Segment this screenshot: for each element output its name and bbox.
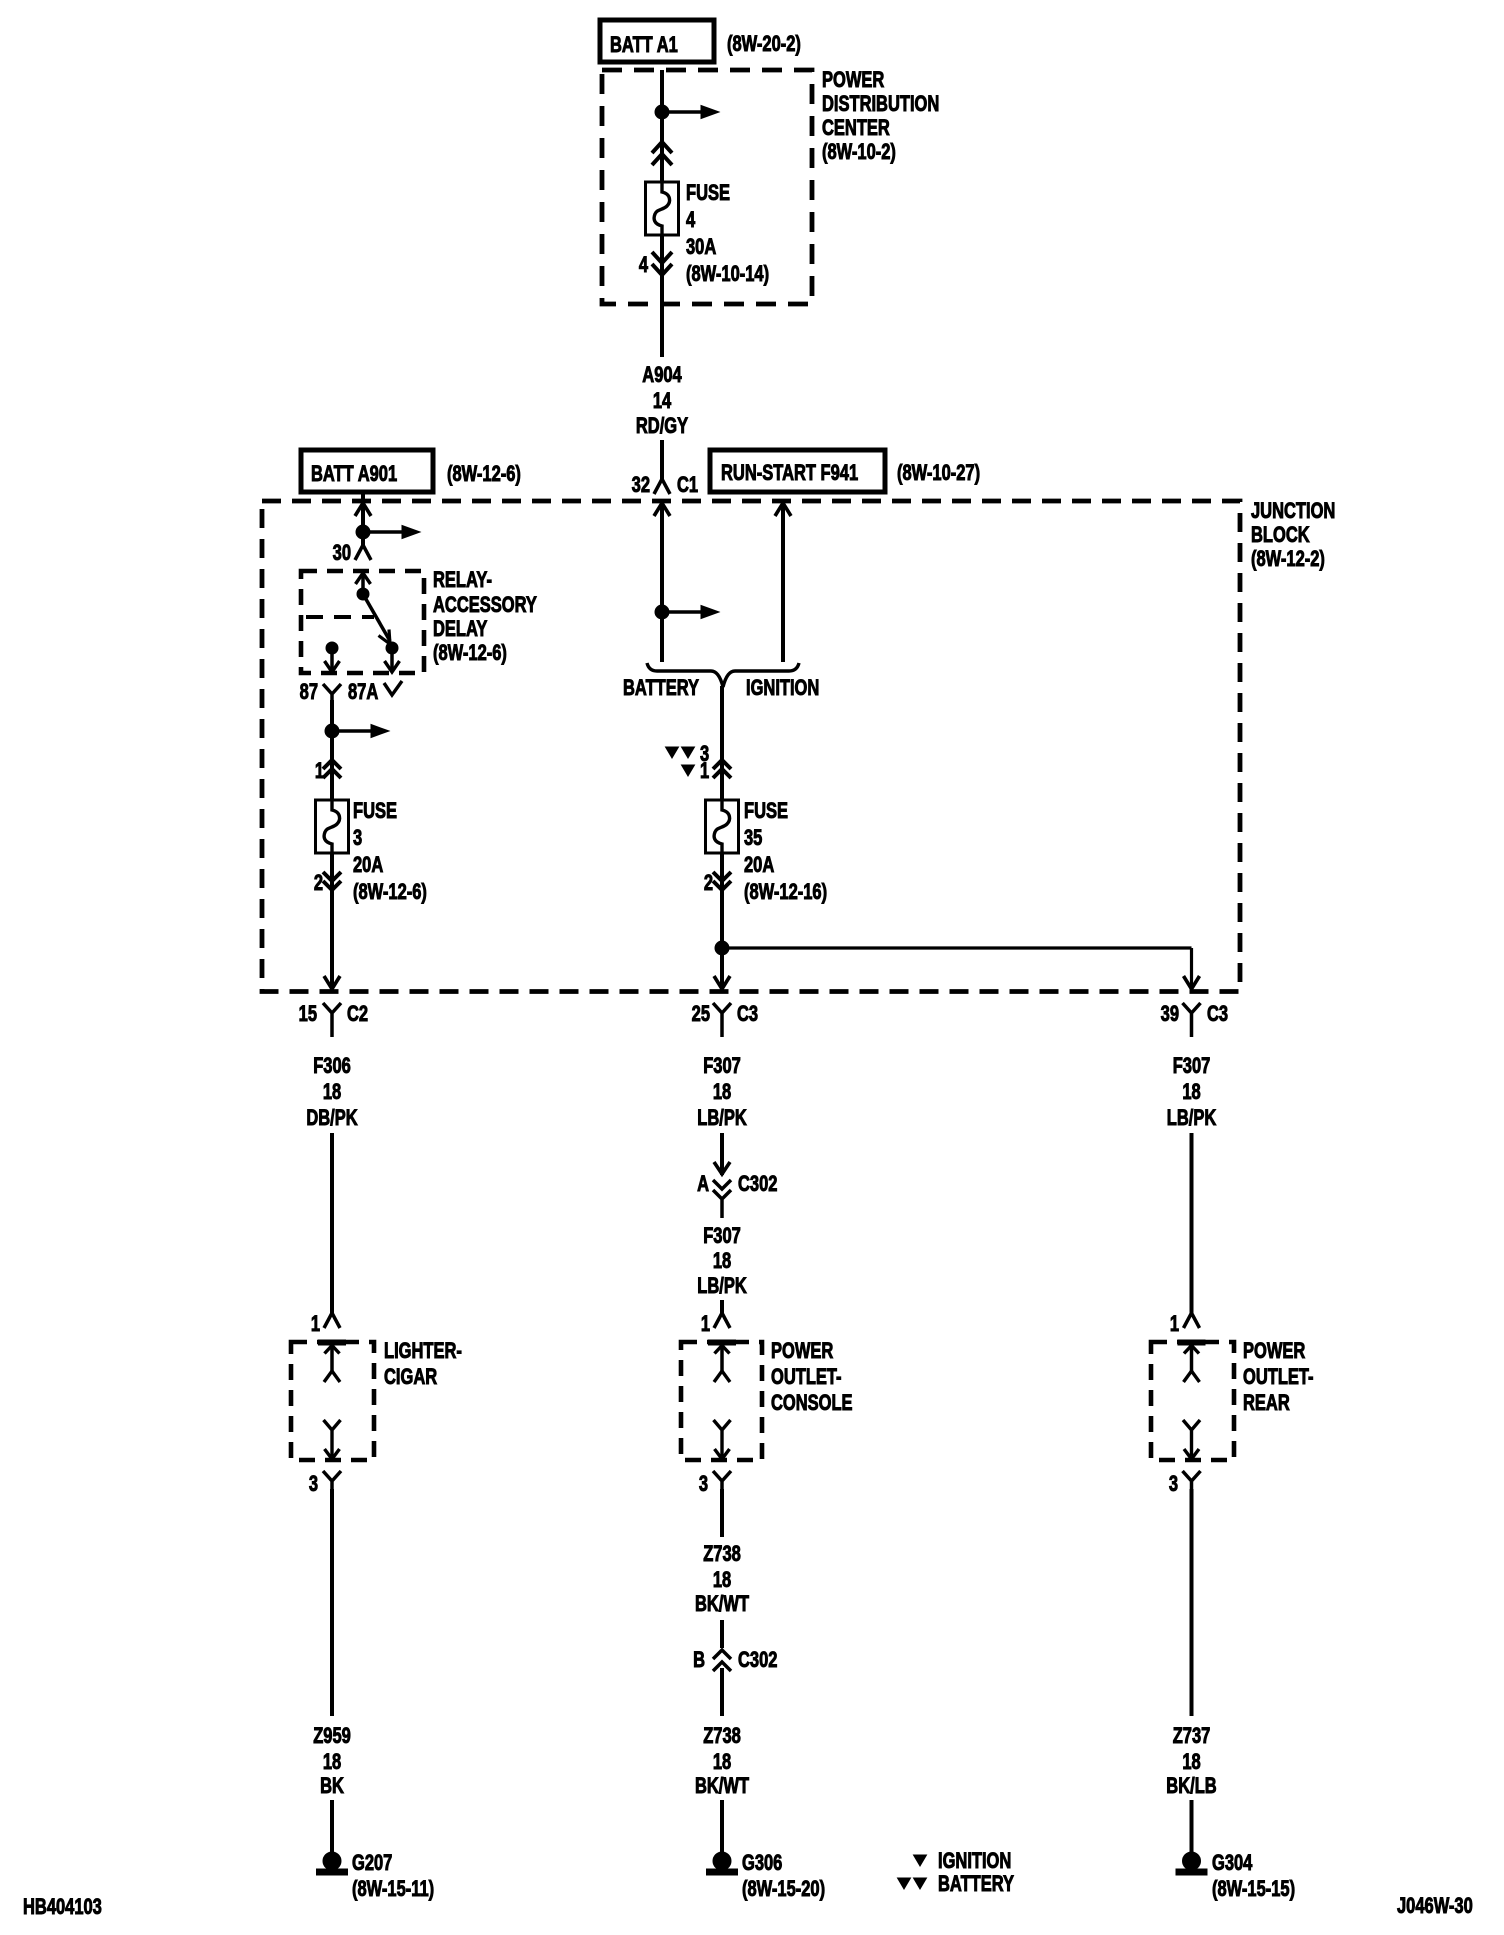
svg-text:39: 39 [1161, 1002, 1180, 1027]
svg-text:18: 18 [713, 1750, 732, 1775]
svg-text:(8W-10-2): (8W-10-2) [822, 140, 896, 165]
junction block label [1251, 499, 1335, 572]
svg-text:Z737: Z737 [1173, 1724, 1211, 1749]
relay-accessory delay dashed box [301, 571, 424, 673]
legend ignition marker [914, 1849, 1012, 1874]
node with feed arrow in PDC [655, 105, 719, 119]
svg-text:F306: F306 [313, 1054, 351, 1079]
svg-text:18: 18 [323, 1750, 342, 1775]
ground label G306 [742, 1851, 825, 1902]
wire to ground G304 [1190, 1800, 1194, 1852]
ground G306 [707, 1852, 738, 1875]
wire to ground G207 [330, 1800, 334, 1852]
relay coil dashed line [306, 615, 374, 619]
connector C3 pin 25 [692, 1002, 759, 1037]
svg-text:POWER: POWER [1243, 1339, 1305, 1364]
svg-text:1: 1 [311, 1312, 320, 1337]
svg-text:30A: 30A [686, 235, 716, 260]
fuse 3 pin 1 [315, 759, 341, 784]
connector C302 pin A [697, 1172, 778, 1218]
svg-text:(8W-12-6): (8W-12-6) [447, 462, 521, 487]
relay contact 87 [325, 642, 340, 672]
svg-text:J046W-30: J046W-30 [1397, 1894, 1473, 1919]
battery marker triangles 3 [666, 742, 710, 767]
svg-text:LB/PK: LB/PK [697, 1274, 746, 1299]
svg-text:4: 4 [686, 208, 695, 233]
svg-text:BK/LB: BK/LB [1166, 1774, 1216, 1799]
svg-text:30: 30 [333, 541, 352, 566]
lighter pin 1 connector [311, 1312, 340, 1337]
svg-text:87A: 87A [348, 680, 378, 705]
svg-text:A: A [697, 1172, 709, 1197]
fuse 35 pin 1 chevrons [713, 760, 731, 778]
svg-text:18: 18 [1182, 1750, 1201, 1775]
double chevron up to fuse 4 [652, 142, 672, 165]
svg-text:Z738: Z738 [703, 1542, 741, 1567]
wire label A904 14 RD/GY [636, 363, 688, 439]
cigar lighter component [291, 1339, 462, 1460]
svg-text:2: 2 [314, 871, 323, 896]
wire 87 to fuse 3 [330, 700, 334, 800]
svg-text:A904: A904 [642, 363, 682, 388]
svg-text:DB/PK: DB/PK [306, 1106, 357, 1131]
wire fuse 35 to connector C3 [714, 852, 730, 991]
branch wire down to connector C3 pin 39 [1184, 948, 1200, 991]
svg-text:20A: 20A [353, 853, 383, 878]
svg-text:C2: C2 [347, 1002, 368, 1027]
wire label Z738 18 BK/WT upper [695, 1542, 749, 1617]
wire C302 B down [720, 1668, 724, 1716]
svg-text:FUSE: FUSE [353, 799, 397, 824]
svg-text:LB/PK: LB/PK [697, 1106, 746, 1131]
svg-text:3: 3 [309, 1472, 318, 1497]
svg-text:G304: G304 [1212, 1851, 1253, 1876]
svg-text:15: 15 [299, 1002, 318, 1027]
svg-text:35: 35 [744, 826, 763, 851]
wire lighter ground run [330, 1489, 334, 1716]
merged wire to fuse 35 [720, 686, 724, 800]
ground G207 [317, 1852, 348, 1875]
svg-text:3: 3 [353, 826, 362, 851]
brace battery/ignition merge [647, 663, 799, 687]
sheet code J046W-30 [1397, 1894, 1473, 1919]
svg-text:87: 87 [300, 680, 318, 705]
svg-text:Z738: Z738 [703, 1724, 741, 1749]
console outlet pin 1 connector [701, 1312, 730, 1337]
svg-text:BK/WT: BK/WT [695, 1592, 749, 1617]
svg-text:1: 1 [1170, 1312, 1179, 1337]
svg-text:CIGAR: CIGAR [384, 1365, 437, 1390]
wire from fuse 4 to label A904 [660, 235, 664, 357]
svg-text:C3: C3 [1207, 1002, 1228, 1027]
fuse 4 30A [646, 182, 679, 235]
svg-text:C302: C302 [738, 1648, 778, 1673]
connector C3 pin 39 [1161, 1002, 1229, 1037]
svg-text:4: 4 [639, 253, 648, 278]
svg-text:20A: 20A [744, 853, 774, 878]
svg-text:F307: F307 [1173, 1054, 1211, 1079]
node with feed arrow on battery feed [655, 605, 719, 619]
battery feed wire inside junction block [654, 501, 670, 662]
fuse 3 pin 2 [314, 871, 341, 896]
pin 87 connector [300, 680, 341, 705]
svg-text:14: 14 [653, 389, 672, 414]
wire label F307 18 LB/PK right [1167, 1054, 1216, 1131]
svg-text:CENTER: CENTER [822, 116, 890, 141]
console pin 3 connector [699, 1471, 731, 1497]
sheet number HB404103 [23, 1895, 102, 1920]
svg-text:3: 3 [1169, 1472, 1178, 1497]
svg-text:RD/GY: RD/GY [636, 414, 688, 439]
wire BATT A901 into junction block [355, 492, 371, 545]
svg-text:IGNITION: IGNITION [746, 676, 819, 701]
legend battery marker [898, 1872, 1015, 1897]
ground label G304 [1212, 1851, 1295, 1902]
svg-text:1: 1 [700, 759, 709, 784]
svg-text:18: 18 [713, 1249, 732, 1274]
feed box RUN-START F941 [710, 450, 885, 492]
svg-text:LIGHTER-: LIGHTER- [384, 1339, 462, 1364]
svg-text:(8W-10-27): (8W-10-27) [897, 461, 980, 486]
lighter pin 3 connector [309, 1471, 341, 1497]
ground label G207 [352, 1851, 434, 1902]
ground G304 [1176, 1852, 1207, 1875]
svg-text:CONSOLE: CONSOLE [771, 1391, 853, 1416]
power distribution center dashed box [602, 70, 812, 304]
svg-text:(8W-12-2): (8W-12-2) [1251, 547, 1325, 572]
svg-text:C1: C1 [677, 473, 698, 498]
connector C1 pin 32 [632, 473, 699, 498]
ignition marker triangle 1 [682, 759, 710, 784]
svg-text:IGNITION: IGNITION [938, 1849, 1011, 1874]
console power outlet component [681, 1339, 853, 1460]
svg-text:(8W-20-2): (8W-20-2) [727, 32, 801, 57]
svg-text:ACCESSORY: ACCESSORY [433, 593, 537, 618]
svg-text:JUNCTION: JUNCTION [1251, 499, 1335, 524]
wire fuse 3 to connector C2 [324, 852, 340, 991]
svg-text:OUTLET-: OUTLET- [771, 1365, 842, 1390]
wire F307 down to console outlet [720, 1300, 724, 1313]
pin 87A connector [348, 680, 402, 705]
svg-text:(8W-12-16): (8W-12-16) [744, 880, 827, 905]
wire F306 down to lighter [330, 1133, 334, 1313]
fuse 4 label [686, 181, 769, 287]
svg-text:F307: F307 [703, 1224, 741, 1249]
fuse 3 label [353, 799, 427, 905]
svg-text:C3: C3 [737, 1002, 758, 1027]
node with feed arrow on relay supply [356, 525, 420, 539]
double chevron down from fuse 4 [652, 252, 672, 275]
svg-text:(8W-15-11): (8W-15-11) [352, 1877, 434, 1902]
wire label F307 18 LB/PK below C302 [697, 1224, 746, 1299]
svg-text:Z959: Z959 [313, 1724, 351, 1749]
svg-text:FUSE: FUSE [686, 181, 730, 206]
svg-text:G207: G207 [352, 1851, 392, 1876]
fuse 35 label [744, 799, 827, 905]
fuse 35 pin 2 [704, 871, 731, 896]
pin 4 label [639, 253, 648, 278]
svg-text:POWER: POWER [822, 68, 884, 93]
relay label [433, 568, 537, 666]
wire console to Z738 label [720, 1489, 724, 1537]
svg-text:HB404103: HB404103 [23, 1895, 102, 1920]
power feed box BATT A1 [600, 20, 714, 62]
svg-text:(8W-10-14): (8W-10-14) [686, 262, 769, 287]
svg-text:(8W-15-15): (8W-15-15) [1212, 1877, 1295, 1902]
node with feed arrow before fuse 3 [325, 724, 389, 738]
junction block dashed box [262, 501, 1240, 992]
svg-text:C302: C302 [738, 1172, 778, 1197]
svg-text:RELAY-: RELAY- [433, 568, 492, 593]
label IGNITION [746, 676, 819, 701]
wire label F307 18 LB/PK centre [697, 1054, 746, 1131]
rear outlet pin 1 connector [1170, 1312, 1200, 1337]
svg-text:RUN-START F941: RUN-START F941 [721, 461, 858, 486]
wire label Z738 18 BK/WT lower [695, 1724, 749, 1799]
junction node to rear outlet branch [715, 941, 1192, 955]
feed box BATT A901 [301, 450, 433, 492]
relay contact 87A [385, 642, 400, 672]
svg-text:B: B [693, 1648, 705, 1673]
svg-text:LB/PK: LB/PK [1167, 1106, 1216, 1131]
relay common contact pin 30 arm [356, 573, 391, 644]
wire label Z959 18 BK [313, 1724, 351, 1799]
svg-text:32: 32 [632, 473, 651, 498]
svg-text:(8W-12-6): (8W-12-6) [353, 880, 427, 905]
svg-text:2: 2 [704, 871, 713, 896]
svg-text:BATT A901: BATT A901 [311, 462, 397, 487]
fuse 35 20A [706, 800, 739, 853]
rear pin 3 connector [1169, 1471, 1201, 1497]
label BATTERY [623, 676, 699, 701]
svg-text:OUTLET-: OUTLET- [1243, 1365, 1314, 1390]
svg-text:BATTERY: BATTERY [623, 676, 699, 701]
connector C302 pin B [693, 1648, 778, 1673]
svg-text:1: 1 [315, 759, 324, 784]
rear power outlet component [1151, 1339, 1314, 1460]
svg-text:18: 18 [323, 1080, 342, 1105]
svg-text:(8W-15-20): (8W-15-20) [742, 1877, 825, 1902]
wire label Z737 18 BK/LB [1166, 1724, 1216, 1799]
wire from BATT A1 into PDC [660, 70, 664, 182]
wire Z738 to connector C302 B [720, 1620, 724, 1648]
svg-text:G306: G306 [742, 1851, 783, 1876]
svg-text:(8W-12-6): (8W-12-6) [433, 641, 507, 666]
wire rear outlet ground run [1190, 1489, 1194, 1716]
svg-text:BK/WT: BK/WT [695, 1774, 749, 1799]
svg-text:BK: BK [320, 1774, 344, 1799]
ignition feed wire inside junction block [775, 501, 791, 662]
svg-text:18: 18 [713, 1568, 732, 1593]
wire F307 to connector C302 [714, 1133, 730, 1175]
svg-text:18: 18 [713, 1080, 732, 1105]
fuse 3 20A [316, 800, 349, 853]
wire A904 to connector C1 [660, 440, 664, 479]
connector C2 pin 15 [299, 1002, 369, 1037]
wire to ground G306 [720, 1800, 724, 1852]
svg-text:BATT A1: BATT A1 [610, 33, 678, 58]
power distribution center label [822, 68, 939, 165]
svg-text:18: 18 [1182, 1080, 1201, 1105]
relay pin 30 connector [333, 541, 371, 566]
svg-text:1: 1 [701, 1312, 710, 1337]
reference label (8W-10-27) [897, 461, 980, 486]
svg-text:BATTERY: BATTERY [938, 1872, 1014, 1897]
wire F307 down to rear outlet [1190, 1133, 1194, 1313]
svg-text:REAR: REAR [1243, 1391, 1290, 1416]
reference label (8W-20-2) [727, 32, 801, 57]
svg-text:FUSE: FUSE [744, 799, 788, 824]
svg-text:DELAY: DELAY [433, 617, 487, 642]
svg-text:POWER: POWER [771, 1339, 833, 1364]
svg-text:DISTRIBUTION: DISTRIBUTION [822, 92, 939, 117]
svg-text:25: 25 [692, 1002, 711, 1027]
wire label F306 18 DB/PK [306, 1054, 357, 1131]
svg-text:F307: F307 [703, 1054, 741, 1079]
svg-text:BLOCK: BLOCK [1251, 523, 1310, 548]
svg-text:3: 3 [699, 1472, 708, 1497]
reference label (8W-12-6) [447, 462, 521, 487]
